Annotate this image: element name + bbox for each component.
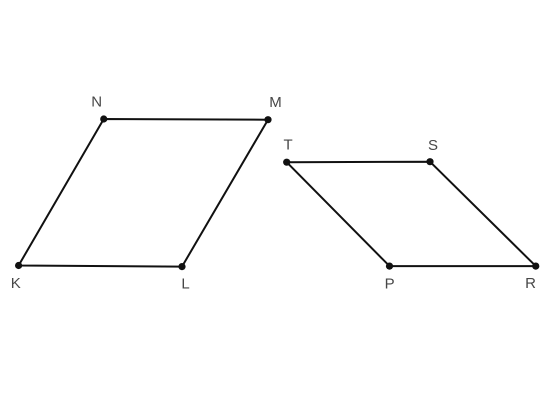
svg-text:K: K [11,275,21,292]
svg-text:N: N [91,94,102,111]
svg-text:R: R [525,275,536,292]
svg-text:M: M [269,94,282,111]
svg-text:S: S [428,137,438,154]
svg-text:P: P [385,275,395,292]
svg-text:T: T [284,137,293,154]
svg-text:L: L [181,276,189,293]
